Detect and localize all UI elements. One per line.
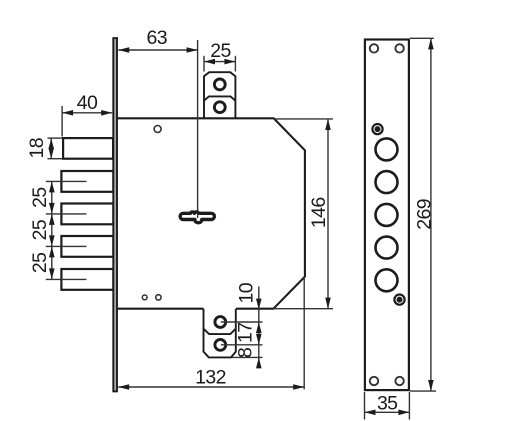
svg-text:10: 10 <box>235 282 257 303</box>
svg-text:40: 40 <box>77 92 98 114</box>
svg-text:25: 25 <box>210 40 231 62</box>
svg-text:63: 63 <box>147 27 168 49</box>
svg-text:146: 146 <box>308 197 330 228</box>
svg-text:269: 269 <box>414 199 436 230</box>
svg-text:25: 25 <box>29 252 51 273</box>
svg-text:8: 8 <box>235 348 257 358</box>
svg-text:132: 132 <box>195 366 226 388</box>
svg-text:25: 25 <box>29 187 51 208</box>
svg-text:25: 25 <box>29 219 51 240</box>
svg-text:17: 17 <box>235 322 257 343</box>
svg-text:35: 35 <box>377 393 398 415</box>
svg-text:18: 18 <box>26 138 48 159</box>
